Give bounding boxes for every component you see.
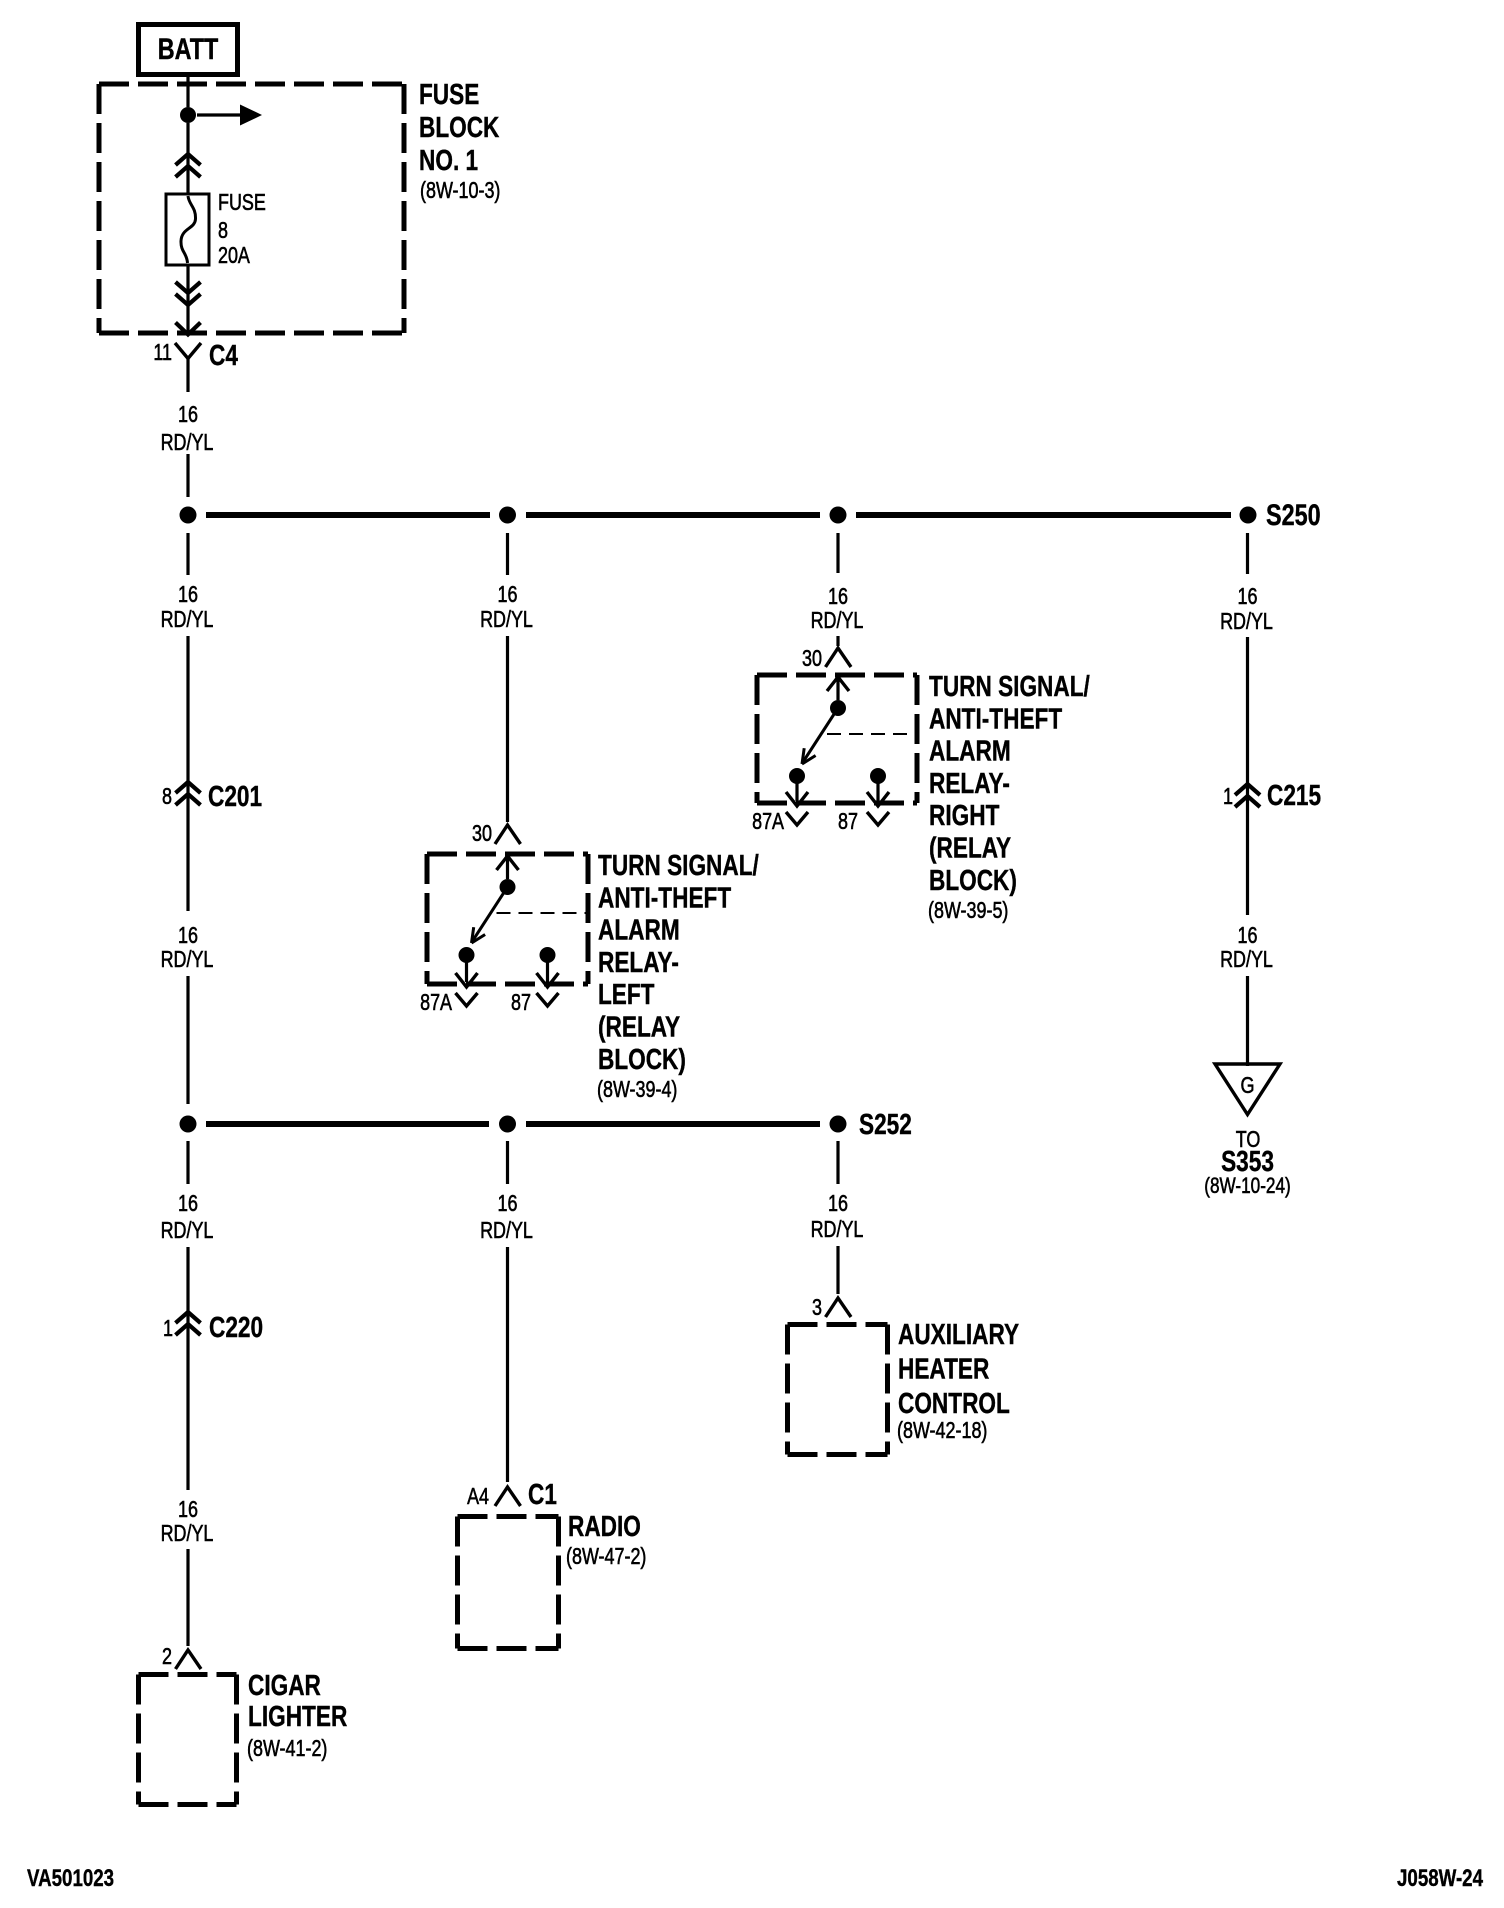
svg-text:A4: A4: [467, 1483, 489, 1509]
wire S252 to C220 (lower): [186, 1247, 189, 1490]
wire label 16 RD/YL (C215 branch): [1220, 583, 1273, 634]
wire label 16 RD/YL (C4 to S250): [161, 401, 214, 455]
svg-text:FUSE: FUSE: [218, 189, 266, 215]
svg-text:16: 16: [1238, 922, 1258, 948]
svg-text:16: 16: [1238, 583, 1258, 609]
auxiliary heater control label: [897, 1319, 1019, 1443]
svg-text:RIGHT: RIGHT: [929, 800, 1000, 832]
svg-text:RD/YL: RD/YL: [480, 606, 533, 632]
junction dot S250 branch 3: [830, 507, 847, 524]
svg-text:RD/YL: RD/YL: [811, 1216, 864, 1242]
svg-text:RD/YL: RD/YL: [161, 1217, 214, 1243]
svg-text:(RELAY: (RELAY: [929, 833, 1011, 865]
battery feed terminal BATT: [139, 25, 238, 75]
svg-text:RD/YL: RD/YL: [161, 606, 214, 632]
wire S250 to C201 (lower): [186, 636, 189, 911]
wire S250 to C215 (lower): [1246, 637, 1249, 915]
svg-text:1: 1: [1223, 783, 1233, 809]
svg-text:(8W-10-24): (8W-10-24): [1204, 1173, 1291, 1198]
svg-text:16: 16: [498, 581, 518, 607]
svg-text:RD/YL: RD/YL: [161, 429, 214, 455]
svg-text:G: G: [1241, 1072, 1255, 1098]
svg-text:87A: 87A: [420, 989, 452, 1015]
wire S250 to relay-left (lower): [506, 636, 509, 822]
wire junction to fuse 8: [186, 123, 189, 194]
splice S250 dot and label: [1240, 499, 1321, 532]
wire S252 to aux heater (upper): [836, 1141, 839, 1184]
fuse label FUSE 8 20A: [218, 189, 266, 268]
svg-text:ALARM: ALARM: [929, 736, 1011, 768]
wire label 16 RD/YL (S252 to aux heater): [811, 1190, 864, 1242]
svg-text:(8W-39-5): (8W-39-5): [928, 897, 1008, 923]
wire S250 to relay-right (upper): [836, 533, 839, 573]
svg-text:C1: C1: [528, 1479, 557, 1511]
svg-text:TURN SIGNAL/: TURN SIGNAL/: [929, 671, 1090, 703]
svg-text:C201: C201: [208, 781, 262, 813]
svg-text:RD/YL: RD/YL: [480, 1217, 533, 1243]
svg-text:C220: C220: [209, 1312, 263, 1344]
in-line connector chevrons (fuse output): [176, 282, 201, 305]
connector C4 pin 11: [153, 339, 238, 392]
aux heater pin 3 connector: [812, 1294, 851, 1320]
svg-text:RD/YL: RD/YL: [1220, 608, 1273, 634]
svg-text:87: 87: [511, 989, 531, 1015]
svg-text:(8W-42-18): (8W-42-18): [897, 1417, 987, 1443]
svg-text:RELAY-: RELAY-: [929, 768, 1010, 800]
radio label: [566, 1511, 646, 1569]
svg-text:RD/YL: RD/YL: [1220, 946, 1273, 972]
in-line connector chevrons (fuse input): [176, 154, 201, 177]
wire label 16 RD/YL (C215 to ground): [1220, 922, 1273, 972]
splice S252 dot and label: [830, 1109, 912, 1141]
svg-text:(8W-41-2): (8W-41-2): [247, 1735, 327, 1761]
radio connector C1 pin A4: [467, 1479, 557, 1511]
svg-text:FUSE: FUSE: [419, 79, 479, 111]
svg-text:RD/YL: RD/YL: [161, 946, 214, 972]
splice S252 bus wire: [206, 1121, 820, 1127]
relay-right name label: [928, 671, 1090, 923]
cigar lighter label: [247, 1670, 347, 1761]
relay-right pin 30 connector: [802, 645, 851, 671]
wire S250 to C201 (upper): [186, 533, 189, 575]
junction dot S250 branch 1: [180, 507, 197, 524]
relay-left pin 30 connector: [472, 820, 521, 846]
svg-text:1: 1: [163, 1315, 173, 1341]
svg-text:11: 11: [153, 339, 172, 365]
wire BATT to junction: [186, 77, 189, 107]
svg-text:8: 8: [162, 783, 172, 809]
junction dot S252 branch 1: [180, 1116, 197, 1133]
svg-text:J058W-24: J058W-24: [1397, 1865, 1484, 1892]
svg-text:C215: C215: [1267, 780, 1321, 812]
wire label 16 RD/YL (S250 to C201): [161, 581, 214, 632]
wire label 16 RD/YL (C220 to cigar lighter): [161, 1496, 214, 1546]
wire label 16 RD/YL (relay-left branch): [480, 581, 533, 632]
svg-text:ALARM: ALARM: [598, 915, 680, 947]
svg-text:16: 16: [178, 401, 198, 427]
svg-text:16: 16: [498, 1190, 518, 1216]
arrow crossing fuse block edge: [176, 323, 201, 335]
fuse block no. 1 label: [419, 79, 500, 203]
relay K-right turn signal/anti-theft (dashed block with contacts): [757, 675, 917, 825]
ground destination label TO S353: [1204, 1126, 1291, 1198]
auxiliary heater control dashed box: [788, 1325, 888, 1455]
svg-text:30: 30: [472, 820, 492, 846]
wire C220 to cigar lighter: [186, 1549, 189, 1646]
svg-text:BLOCK): BLOCK): [929, 865, 1017, 897]
wire C215 to ground: [1246, 976, 1249, 1066]
svg-text:S252: S252: [859, 1109, 912, 1141]
svg-text:16: 16: [828, 1190, 848, 1216]
connector C220 pin 1: [163, 1312, 263, 1344]
wire fuse to connector C4: [186, 265, 189, 333]
svg-text:CONTROL: CONTROL: [898, 1388, 1010, 1420]
svg-text:AUXILIARY: AUXILIARY: [898, 1319, 1019, 1351]
svg-text:S250: S250: [1266, 499, 1321, 532]
wire S252 to radio (upper): [506, 1141, 509, 1184]
svg-text:(8W-47-2): (8W-47-2): [566, 1543, 646, 1569]
cigar lighter pin 2 connector: [162, 1643, 201, 1669]
cigar lighter dashed box: [139, 1675, 237, 1805]
wire S252 to radio (lower): [506, 1247, 509, 1482]
svg-text:RD/YL: RD/YL: [811, 607, 864, 633]
wire label 16 RD/YL (relay-right branch): [811, 583, 864, 633]
svg-text:BATT: BATT: [158, 33, 219, 66]
connector C201 pin 8: [162, 781, 262, 813]
svg-text:BLOCK: BLOCK: [419, 112, 499, 144]
svg-text:VA501023: VA501023: [27, 1865, 114, 1892]
svg-text:ANTI-THEFT: ANTI-THEFT: [598, 882, 731, 914]
svg-text:C4: C4: [209, 340, 238, 372]
wire C4 to splice S250: [186, 454, 189, 497]
svg-text:RADIO: RADIO: [568, 1511, 641, 1543]
wire S250 to C215 (upper): [1246, 533, 1249, 574]
svg-text:LIGHTER: LIGHTER: [248, 1701, 347, 1733]
wire S250 to relay-right (lower): [836, 636, 839, 646]
wire S252 to aux heater (lower): [836, 1246, 839, 1294]
wire S250 to relay-left (upper): [506, 533, 509, 575]
fuse block no. 1 dashed outline: [99, 84, 404, 333]
svg-text:TURN SIGNAL/: TURN SIGNAL/: [598, 850, 759, 882]
wire label 16 RD/YL (C201 to S252): [161, 922, 214, 972]
splice S250 bus wire: [206, 512, 1231, 518]
radio dashed box: [458, 1517, 559, 1649]
svg-text:ANTI-THEFT: ANTI-THEFT: [929, 703, 1062, 735]
svg-text:87: 87: [838, 808, 858, 834]
wire label 16 RD/YL (S252 to radio): [480, 1190, 533, 1243]
svg-text:16: 16: [828, 583, 848, 609]
relay K-left turn signal/anti-theft (dashed block with contacts): [427, 854, 588, 1006]
svg-text:8: 8: [218, 217, 228, 243]
svg-text:16: 16: [178, 922, 198, 948]
connector C215 pin 1: [1223, 780, 1321, 812]
svg-text:16: 16: [178, 1190, 198, 1216]
svg-text:2: 2: [162, 1643, 172, 1669]
svg-text:16: 16: [178, 581, 198, 607]
svg-text:BLOCK): BLOCK): [598, 1044, 686, 1076]
wire C201 to splice S252: [186, 976, 189, 1104]
svg-text:LEFT: LEFT: [598, 979, 655, 1011]
junction dot S252 branch 2: [499, 1116, 516, 1133]
svg-text:CIGAR: CIGAR: [248, 1670, 321, 1702]
svg-text:20A: 20A: [218, 242, 250, 268]
svg-text:16: 16: [178, 1496, 198, 1522]
junction dot S250 branch 2: [499, 507, 516, 524]
svg-text:(8W-39-4): (8W-39-4): [597, 1076, 677, 1102]
svg-text:HEATER: HEATER: [898, 1354, 989, 1386]
svg-text:(RELAY: (RELAY: [598, 1012, 680, 1044]
svg-text:(8W-10-3): (8W-10-3): [420, 177, 500, 203]
relay-left name label: [597, 850, 759, 1102]
fuse 8 (20A) element: [166, 194, 209, 265]
svg-text:RELAY-: RELAY-: [598, 947, 679, 979]
svg-text:3: 3: [812, 1294, 822, 1320]
svg-text:30: 30: [802, 645, 822, 671]
svg-text:RD/YL: RD/YL: [161, 1520, 214, 1546]
junction dot with feed arrow: [180, 105, 262, 126]
wire label 16 RD/YL (S252 to C220): [161, 1190, 214, 1243]
wire S252 to C220 (upper): [186, 1141, 189, 1184]
svg-text:NO. 1: NO. 1: [419, 145, 478, 177]
ground symbol G: [1215, 1064, 1280, 1115]
svg-text:87A: 87A: [752, 808, 784, 834]
